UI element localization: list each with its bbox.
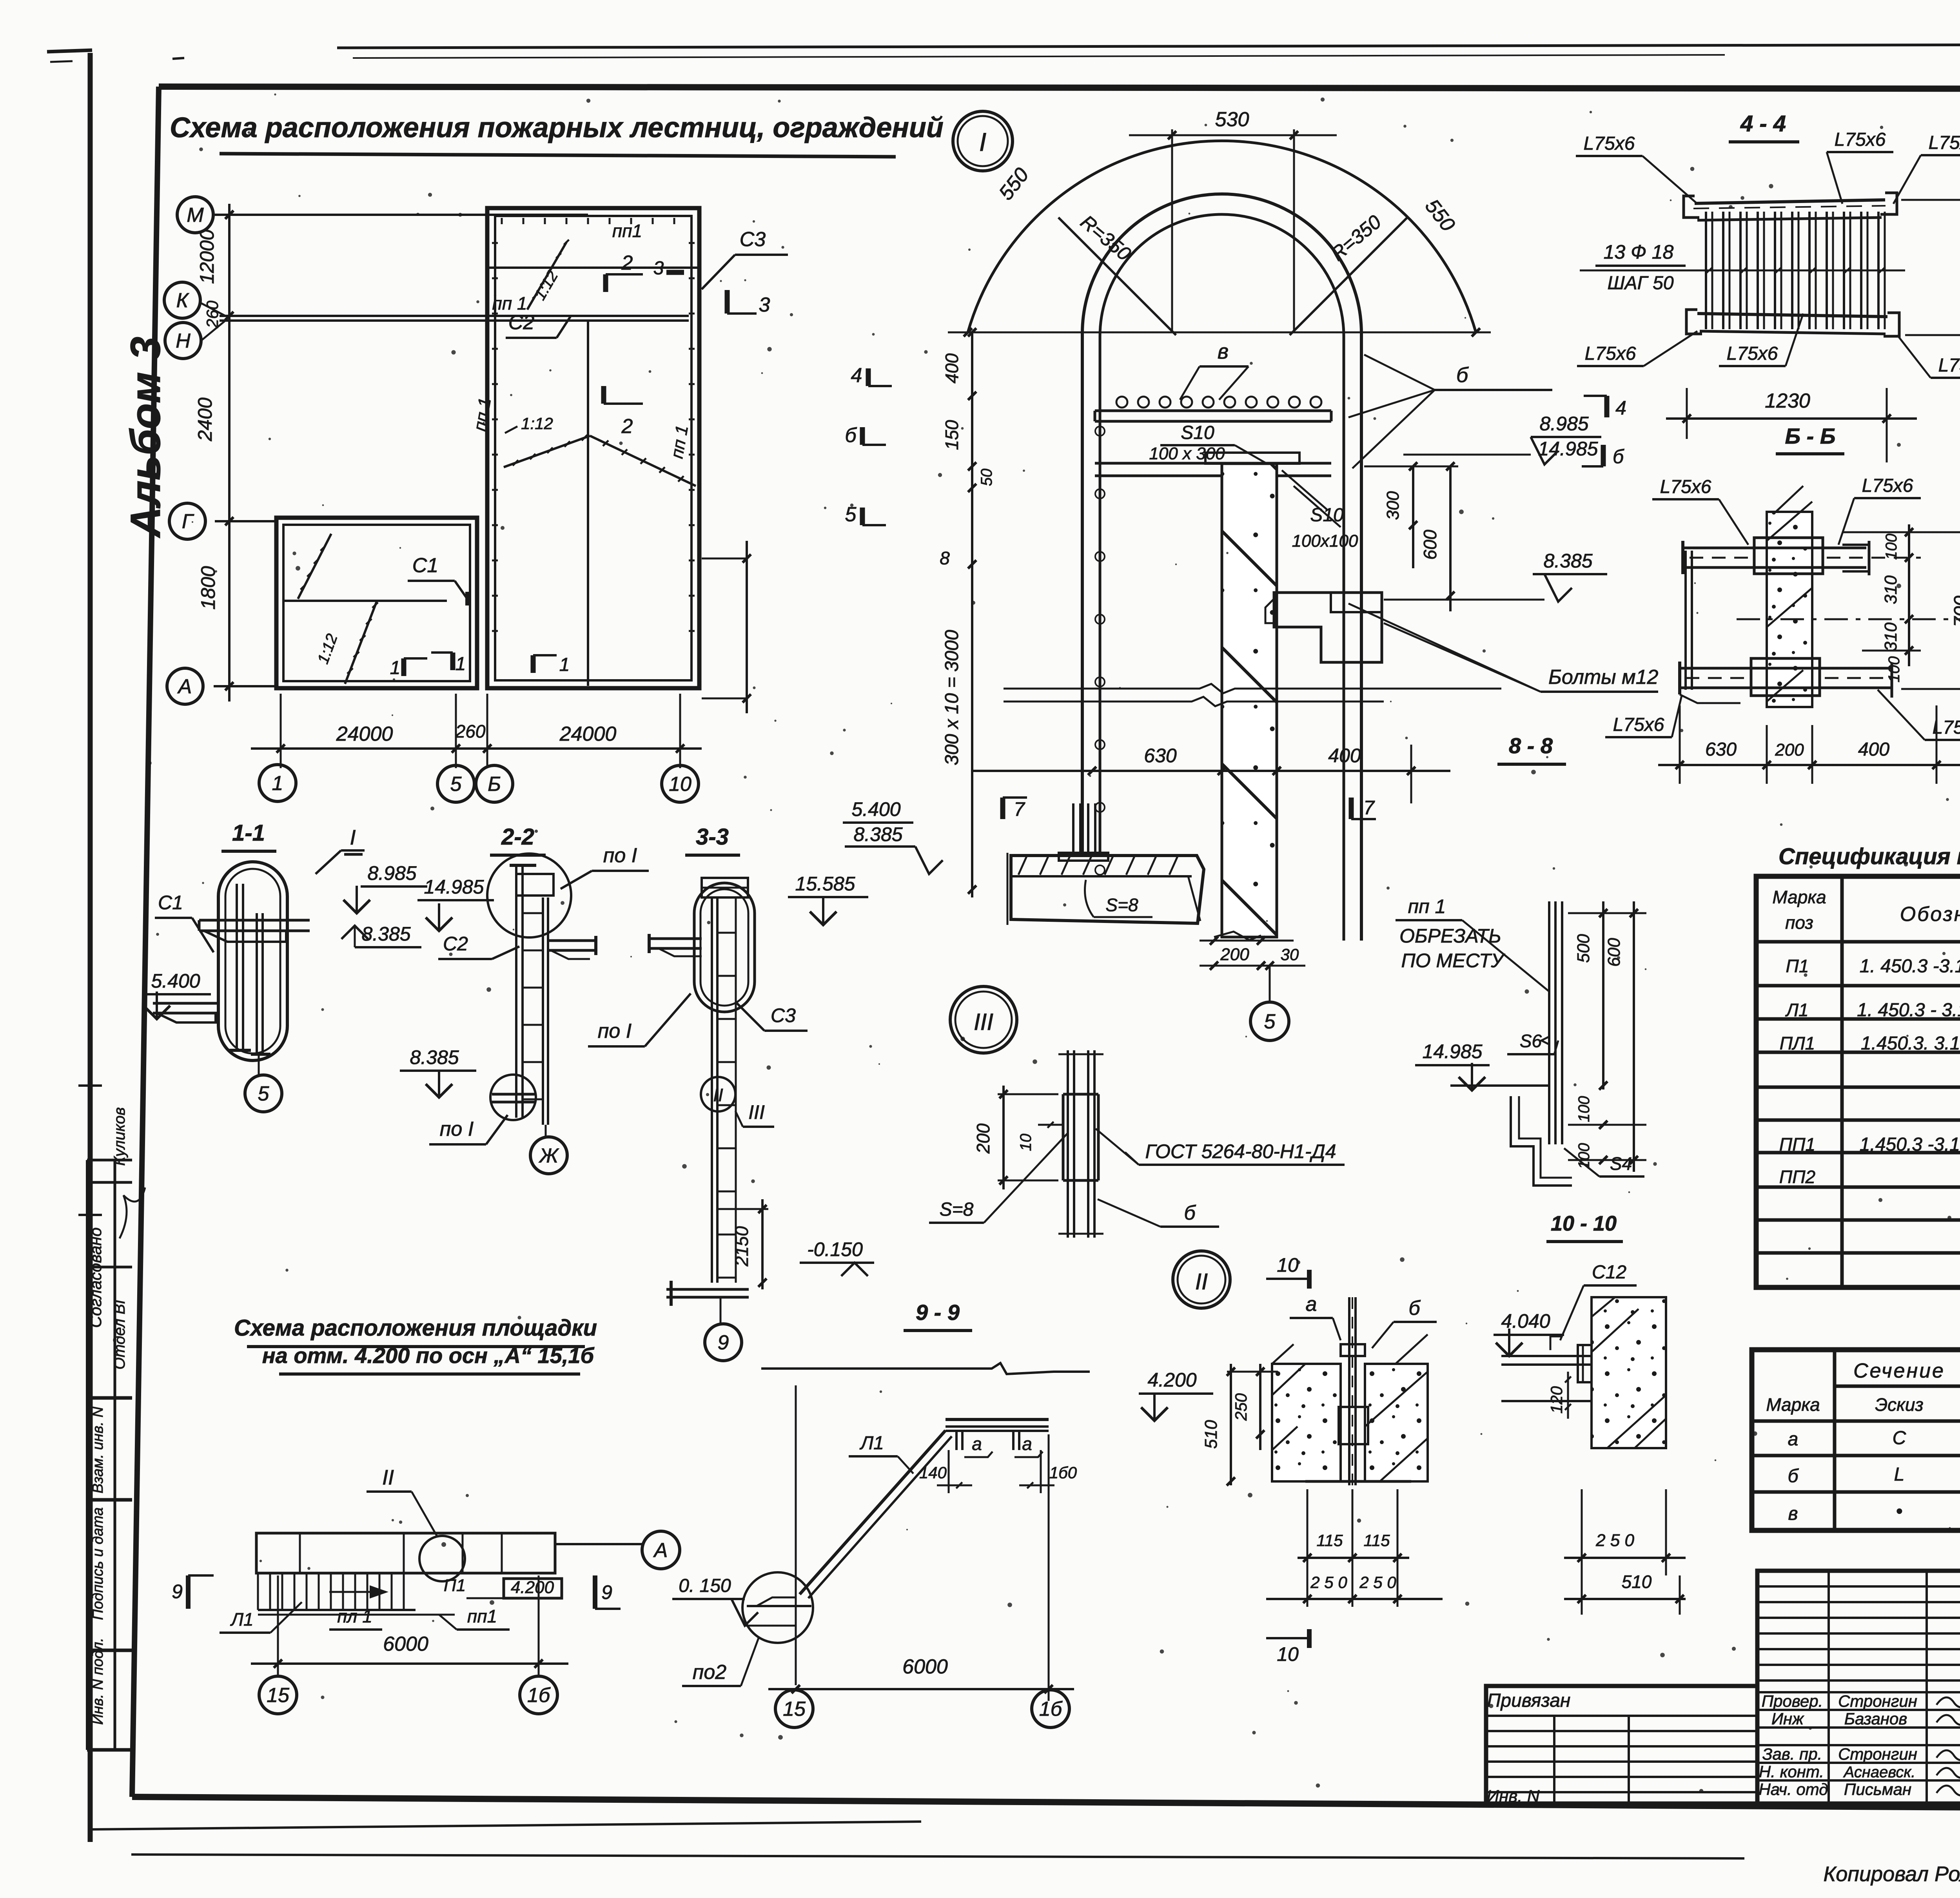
svg-text:Б: Б bbox=[488, 773, 501, 796]
svg-text:8.385: 8.385 bbox=[361, 923, 410, 945]
svg-text:3-3: 3-3 bbox=[696, 824, 729, 850]
axis K-N double line bbox=[200, 303, 689, 341]
svg-text:L75x6: L75x6 bbox=[1929, 132, 1960, 153]
svg-text:Отдел ВГ: Отдел ВГ bbox=[111, 1294, 128, 1369]
svg-text:А: А bbox=[177, 675, 192, 698]
svg-text:8.985: 8.985 bbox=[1539, 413, 1588, 435]
section mark 10 bottom bbox=[1266, 1629, 1309, 1665]
9-9 stringer diagonal bbox=[800, 1430, 952, 1598]
svg-text:пп 1: пп 1 bbox=[492, 293, 527, 314]
svg-text:Марка: Марка bbox=[1766, 1394, 1820, 1415]
svg-text:2 5 0: 2 5 0 bbox=[1359, 1573, 1396, 1592]
spec table header bbox=[1772, 887, 1960, 933]
B-B right dim chains bbox=[1842, 513, 1960, 702]
svg-text:3: 3 bbox=[653, 258, 664, 279]
column cap plate bbox=[1205, 453, 1299, 464]
B-B column hatched bbox=[1767, 486, 1812, 707]
svg-text:L: L bbox=[1894, 1464, 1905, 1485]
column bubble 1 bbox=[259, 765, 296, 801]
svg-text:•: • bbox=[1896, 1501, 1903, 1522]
svg-text:С1: С1 bbox=[158, 892, 183, 914]
label L75x6 bbox=[1576, 133, 1697, 204]
B-B bottom bar bbox=[1680, 658, 1892, 703]
svg-text:4.200: 4.200 bbox=[511, 1578, 554, 1597]
po2 circle 9-9 bbox=[742, 1572, 813, 1643]
floor slope 1:12 building A bbox=[504, 414, 696, 486]
svg-text:10: 10 bbox=[1277, 1254, 1299, 1276]
bubble 16 platform bbox=[520, 1676, 557, 1714]
svg-text:Базанов: Базанов bbox=[1844, 1709, 1907, 1728]
spec table rows bbox=[1779, 956, 1960, 1187]
pp1 vertical strip bbox=[1549, 901, 1562, 1144]
svg-text:Зав. пр.: Зав. пр. bbox=[1762, 1745, 1822, 1763]
P1 and 4.200 box bbox=[444, 1576, 562, 1598]
svg-text:Схема расположения площадки: Схема расположения площадки bbox=[234, 1315, 597, 1341]
dim 530 on arc top bbox=[1129, 108, 1337, 332]
svg-text:б: б bbox=[845, 424, 857, 447]
vedomost header bbox=[1766, 1360, 1960, 1422]
B-B bottom dims 630 200 400 bbox=[1658, 705, 1960, 784]
svg-text:L75x6: L75x6 bbox=[1862, 475, 1913, 496]
svg-text:5: 5 bbox=[258, 1082, 270, 1105]
svg-text:ОБРЕЗАТЬ: ОБРЕЗАТЬ bbox=[1399, 925, 1501, 947]
left margin stamp boxes bbox=[87, 1160, 132, 1750]
svg-text:Нач. отд: Нач. отд bbox=[1759, 1780, 1828, 1798]
main title bbox=[170, 112, 944, 157]
spec table title bbox=[1779, 844, 1960, 869]
0.150 elevation 9-9 bbox=[672, 1575, 796, 1626]
10-10 beam lines bbox=[1501, 1336, 1592, 1401]
S4 label bbox=[1564, 1148, 1644, 1177]
section mark 3 (outside right) bbox=[727, 290, 770, 316]
svg-text:1: 1 bbox=[390, 658, 401, 678]
svg-text:Аснаевск.: Аснаевск. bbox=[1843, 1764, 1916, 1781]
svg-text:24000: 24000 bbox=[336, 723, 393, 745]
detail circle II on band bbox=[419, 1536, 465, 1581]
B-B centerline bbox=[1737, 618, 1960, 620]
platform ladder grid below bbox=[258, 1573, 455, 1615]
column break and dims 200 30 bbox=[1200, 932, 1305, 970]
svg-text:300: 300 bbox=[1383, 491, 1403, 520]
svg-text:2400: 2400 bbox=[194, 397, 216, 441]
svg-text:1. 450.3 -3.1 2.1.1.0.0- 16: 1. 450.3 -3.1 2.1.1.0.0- 16 bbox=[1860, 956, 1960, 977]
GOST weld label bbox=[1096, 1129, 1345, 1165]
svg-text:б: б bbox=[1788, 1466, 1799, 1486]
platform hatched zones bbox=[267, 1533, 549, 1573]
dim 2150 3-3 bbox=[717, 1199, 768, 1289]
section 1-1 cage capsule bbox=[218, 862, 287, 1060]
section mark 3 (inside) bbox=[653, 258, 684, 279]
svg-text:2: 2 bbox=[621, 415, 633, 438]
section 3-3 bracket left bbox=[649, 934, 702, 956]
svg-text:S4: S4 bbox=[1610, 1153, 1632, 1174]
9-9 axis line bbox=[795, 1385, 797, 1685]
svg-text:115: 115 bbox=[1364, 1531, 1390, 1550]
svg-text:а: а bbox=[972, 1434, 982, 1454]
platform center arrow bbox=[329, 1586, 386, 1597]
svg-text:1: 1 bbox=[272, 772, 283, 795]
section title 3-3 bbox=[685, 824, 740, 855]
svg-text:М: М bbox=[187, 204, 204, 227]
svg-text:в: в bbox=[1218, 340, 1229, 363]
po2 label bbox=[682, 1638, 759, 1686]
elevation 8.985 1-1 bbox=[343, 862, 427, 913]
label L75x6 bbox=[1719, 314, 1803, 366]
section mark 2 (mid) bbox=[604, 386, 643, 438]
building B inner line bbox=[283, 600, 447, 602]
4-4 dashed top line bbox=[1693, 206, 1886, 208]
svg-text:Стронгин: Стронгин bbox=[1838, 1692, 1917, 1710]
svg-text:L75x6: L75x6 bbox=[1584, 133, 1635, 154]
bubble 15 9-9 bbox=[775, 1690, 813, 1728]
title 9-9 bbox=[904, 1300, 972, 1331]
section 1-1 ladder stringers bbox=[229, 884, 270, 1054]
svg-text:8.385: 8.385 bbox=[410, 1046, 459, 1068]
svg-text:Схема расположения пожарных: Схема расположения пожарных лестниц, огр… bbox=[170, 112, 944, 143]
break lines across shaft bbox=[1004, 684, 1501, 706]
svg-text:5: 5 bbox=[1264, 1010, 1276, 1033]
svg-text:1. 450.3 - 3.1 1.1.1:0.0- 19: 1. 450.3 - 3.1 1.1.1:0.0- 19 bbox=[1857, 1000, 1960, 1021]
svg-text:7: 7 bbox=[1363, 797, 1375, 819]
S6 label bbox=[1507, 1031, 1558, 1054]
slope line building B upper bbox=[298, 534, 331, 599]
svg-text:4.200: 4.200 bbox=[1147, 1369, 1196, 1391]
120 dim bbox=[1547, 1372, 1571, 1419]
svg-text:С2: С2 bbox=[508, 311, 535, 334]
svg-text:9: 9 bbox=[718, 1331, 729, 1354]
svg-text:по I: по I bbox=[440, 1118, 474, 1140]
4-4 bottom rail bbox=[1686, 310, 1899, 336]
svg-text:30: 30 bbox=[1281, 945, 1299, 964]
signature rows text bbox=[1759, 1692, 1960, 1798]
bubble 9 under 3-3 bbox=[705, 1297, 742, 1361]
weld dims 200 10 bbox=[973, 1086, 1063, 1189]
axis M line bbox=[215, 210, 588, 219]
node base plate bbox=[1305, 1407, 1411, 1481]
axis N bubble bbox=[165, 323, 201, 359]
svg-text:100: 100 bbox=[1575, 1096, 1593, 1122]
svg-text:С1: С1 bbox=[412, 554, 438, 577]
svg-text:1б0: 1б0 bbox=[1049, 1463, 1077, 1482]
svg-text:50: 50 bbox=[978, 469, 995, 486]
svg-text:300 x 10 = 3000: 300 x 10 = 3000 bbox=[942, 630, 962, 765]
dims 500 600 right bbox=[1568, 901, 1646, 1172]
svg-text:310: 310 bbox=[1881, 622, 1900, 651]
1230 dim 4-4 bbox=[1666, 388, 1917, 462]
svg-text:I: I bbox=[350, 826, 356, 849]
svg-text:ПП2: ПП2 bbox=[1779, 1167, 1815, 1187]
svg-text:ПЛ1: ПЛ1 bbox=[1780, 1033, 1815, 1053]
section 2-2 top landing plate bbox=[516, 874, 554, 896]
label C2 leader 2-2 bbox=[438, 933, 519, 959]
elevation 8.385 2-2 bbox=[400, 1046, 476, 1097]
svg-text:III: III bbox=[974, 1009, 993, 1035]
detail I base slab bbox=[1007, 853, 1204, 925]
horizontal axis line of hoop top bbox=[948, 332, 1491, 334]
svg-text:Провер.: Провер. bbox=[1762, 1692, 1823, 1710]
label L75x6 bbox=[1897, 335, 1960, 378]
svg-text:L75x6: L75x6 bbox=[1660, 477, 1711, 497]
svg-text:а: а bbox=[1788, 1429, 1798, 1450]
platform 6000 dim bbox=[251, 1575, 568, 1675]
bottom dimension line of plan bbox=[251, 694, 702, 768]
svg-text:в: в bbox=[1788, 1503, 1798, 1524]
second plate with S10 100x300 bbox=[1095, 422, 1331, 476]
9-9 top line with jog bbox=[761, 1363, 1090, 1374]
title block privyazan part bbox=[1486, 1686, 1757, 1806]
svg-text:а: а bbox=[1022, 1434, 1032, 1454]
svg-text:5: 5 bbox=[845, 503, 857, 526]
svg-text:Б - Б: Б - Б bbox=[1785, 424, 1835, 448]
roof slope 1:12 top band bbox=[527, 240, 569, 310]
sheet outer scan edge bottom bbox=[91, 1822, 1744, 1858]
svg-text:2 5 0: 2 5 0 bbox=[1595, 1531, 1634, 1550]
bolts m12 label bbox=[1348, 604, 1659, 692]
svg-text:630: 630 bbox=[1144, 745, 1177, 767]
svg-text:S10: S10 bbox=[1181, 422, 1214, 443]
R=350 leaders bbox=[1058, 211, 1407, 335]
svg-text:П1: П1 bbox=[1786, 956, 1809, 976]
bubble 16 9-9 bbox=[1032, 1690, 1069, 1728]
section 1-1 platform bracket bbox=[199, 920, 310, 942]
svg-text:S6: S6 bbox=[1520, 1031, 1542, 1051]
svg-text:2-2: 2-2 bbox=[501, 824, 534, 850]
svg-text:ПО МЕСТУ: ПО МЕСТУ bbox=[1401, 950, 1506, 972]
svg-text:поз: поз bbox=[1785, 912, 1813, 933]
svg-text:С: С bbox=[1893, 1428, 1906, 1448]
title B-B bbox=[1776, 424, 1844, 454]
svg-text:150: 150 bbox=[942, 420, 962, 450]
section 3-3 top plate bbox=[702, 878, 748, 897]
elevation 15.585 3-3 bbox=[788, 873, 868, 925]
C12 label bbox=[1560, 1262, 1637, 1340]
kopiroval bbox=[1823, 1862, 1960, 1886]
svg-text:115: 115 bbox=[1317, 1531, 1343, 1550]
svg-text:1-1: 1-1 bbox=[232, 820, 265, 846]
svg-text:14.985: 14.985 bbox=[1423, 1041, 1483, 1062]
svg-text:600: 600 bbox=[1420, 529, 1440, 560]
svg-text:5: 5 bbox=[450, 773, 462, 796]
svg-text:Обозначение: Обозначение bbox=[1900, 903, 1960, 926]
B-B L75x6 labels bbox=[1652, 477, 1748, 545]
svg-text:б: б bbox=[1456, 363, 1469, 387]
svg-text:Сечение: Сечение bbox=[1853, 1360, 1945, 1382]
svg-text:100: 100 bbox=[1883, 534, 1900, 560]
elevation 8.385 right bbox=[1384, 550, 1607, 602]
svg-text:L75x6: L75x6 bbox=[1727, 343, 1778, 364]
section marks 4 6 below bbox=[1582, 396, 1626, 468]
svg-text:200: 200 bbox=[973, 1123, 993, 1154]
node a b labels bbox=[1290, 1293, 1437, 1348]
node concrete right bbox=[1365, 1334, 1428, 1481]
svg-text:13 Ф 18: 13 Ф 18 bbox=[1604, 241, 1674, 263]
svg-text:Стронгин: Стронгин bbox=[1838, 1745, 1917, 1763]
svg-text:Марка: Марка bbox=[1772, 887, 1826, 907]
sheet outer scan edge top bbox=[337, 44, 1960, 58]
svg-text:15: 15 bbox=[783, 1698, 806, 1720]
svg-text:А: А bbox=[653, 1539, 668, 1562]
node elevation 4.200 bbox=[1139, 1369, 1213, 1421]
label po I bottom 2-2 bbox=[429, 1115, 508, 1144]
label po I top 2-2 bbox=[561, 844, 649, 889]
svg-text:9: 9 bbox=[601, 1581, 612, 1603]
svg-text:S=8: S=8 bbox=[1105, 895, 1138, 915]
section mark 1 pair building A bbox=[533, 654, 570, 675]
svg-text:400: 400 bbox=[1328, 745, 1361, 767]
svg-text:1230: 1230 bbox=[1765, 390, 1810, 412]
svg-text:1.450.3. 3.1 4.1.1.10. - 11: 1.450.3. 3.1 4.1.1.10. - 11 bbox=[1861, 1033, 1960, 1054]
svg-text:260: 260 bbox=[455, 721, 486, 741]
svg-text:9: 9 bbox=[172, 1581, 183, 1603]
svg-text:II: II bbox=[713, 1085, 723, 1105]
svg-text:4: 4 bbox=[1615, 397, 1626, 419]
svg-text:Л1: Л1 bbox=[1785, 1000, 1808, 1020]
svg-text:0. 150: 0. 150 bbox=[679, 1575, 731, 1596]
svg-text:L75x6: L75x6 bbox=[1835, 129, 1886, 150]
svg-text:510: 510 bbox=[1622, 1572, 1652, 1592]
svg-text:б: б bbox=[1184, 1202, 1196, 1224]
B-B left vertical tie bbox=[1686, 551, 1692, 690]
svg-text:15.585: 15.585 bbox=[795, 873, 855, 895]
registration tick marks left edge bbox=[78, 1086, 102, 1750]
pp1 labels building A bbox=[470, 221, 692, 460]
svg-text:ГОСТ 5264-80-Н1-Д4: ГОСТ 5264-80-Н1-Д4 bbox=[1145, 1140, 1336, 1162]
svg-text:120: 120 bbox=[1547, 1386, 1566, 1414]
4.040 elevation bbox=[1494, 1310, 1564, 1356]
spec table grid bbox=[1756, 876, 1960, 1287]
svg-text:700: 700 bbox=[1951, 596, 1960, 627]
svg-text:Письман: Письман bbox=[1844, 1780, 1911, 1798]
building A inner lines bbox=[487, 268, 699, 686]
bubble 15 platform bbox=[259, 1676, 297, 1714]
svg-text:пп1: пп1 bbox=[612, 221, 642, 241]
svg-text:б: б bbox=[1408, 1297, 1421, 1320]
svg-text:5.400: 5.400 bbox=[151, 970, 200, 992]
label II leader bbox=[367, 1466, 437, 1536]
label III leader 3-3 bbox=[735, 1101, 774, 1127]
right wall bracket step bbox=[1265, 593, 1382, 662]
node dims 250 250 bbox=[1266, 1573, 1443, 1603]
scan artifact dashes top-left bbox=[47, 50, 184, 62]
concrete column (hatched) bbox=[1222, 464, 1277, 937]
label L75x6 bbox=[1893, 132, 1960, 204]
10-10 wall concrete bbox=[1592, 1297, 1666, 1448]
svg-text:Спецификация к схеме распол: Спецификация к схеме расположения площад… bbox=[1779, 844, 1960, 869]
svg-text:1:12: 1:12 bbox=[521, 414, 553, 433]
svg-text:10 - 10: 10 - 10 bbox=[1551, 1212, 1617, 1235]
svg-text:4 - 4: 4 - 4 bbox=[1740, 111, 1786, 136]
svg-text:200: 200 bbox=[1220, 945, 1249, 964]
svg-text:Согласовано: Согласовано bbox=[86, 1227, 105, 1328]
sheet outer scan edge left bbox=[88, 53, 93, 1842]
svg-text:2150: 2150 bbox=[731, 1226, 752, 1267]
svg-text:Л1: Л1 bbox=[230, 1609, 253, 1630]
svg-text:S=8: S=8 bbox=[940, 1199, 974, 1220]
axis A bubble bbox=[167, 668, 203, 704]
svg-text:7: 7 bbox=[1014, 798, 1025, 820]
axis G bubble bbox=[169, 503, 205, 539]
svg-text:630: 630 bbox=[1705, 739, 1737, 760]
svg-text:15: 15 bbox=[267, 1684, 290, 1707]
svg-text:С3: С3 bbox=[740, 228, 766, 251]
svg-text:9 - 9: 9 - 9 bbox=[916, 1300, 960, 1325]
svg-text:-0.150: -0.150 bbox=[807, 1238, 863, 1260]
bubble 5 under column bbox=[1250, 966, 1289, 1041]
svg-text:ШАГ 50: ШАГ 50 bbox=[1607, 273, 1673, 294]
label C1 leader 1-1 bbox=[155, 892, 214, 952]
elevation 14.985 bbox=[1415, 1041, 1490, 1090]
labels pl1 pp1 L1 bbox=[220, 1602, 510, 1633]
svg-text:1б: 1б bbox=[1039, 1698, 1063, 1720]
svg-text:Подпись и дата: Подпись и дата bbox=[90, 1507, 106, 1620]
svg-text:530: 530 bbox=[1215, 108, 1249, 131]
svg-text:С12: С12 bbox=[1592, 1262, 1626, 1283]
left margin rotated captions bbox=[86, 1107, 145, 1725]
title block signature grid bbox=[1757, 1571, 1960, 1804]
section mark 2 (top) bbox=[606, 252, 643, 292]
svg-text:С2: С2 bbox=[443, 933, 468, 955]
small circle bracket 2-2 bbox=[490, 1075, 536, 1120]
svg-text:Инж: Инж bbox=[1771, 1709, 1804, 1728]
svg-text:пп1: пп1 bbox=[467, 1606, 497, 1626]
9-9 post a marks bbox=[964, 1434, 1043, 1457]
svg-text:L75x6: L75x6 bbox=[1613, 714, 1664, 735]
svg-text:12000: 12000 bbox=[196, 229, 218, 284]
section title 1-1 bbox=[221, 820, 276, 851]
svg-text:L75x6: L75x6 bbox=[1585, 343, 1636, 364]
svg-text:по I: по I bbox=[598, 1020, 632, 1042]
svg-text:Копировал Роллевская: Копировал Роллевская bbox=[1823, 1862, 1960, 1886]
svg-text:по I: по I bbox=[603, 844, 637, 867]
dims 140 160 9-9 bbox=[919, 1450, 1077, 1493]
axis A line bbox=[214, 685, 278, 687]
platform scheme title bbox=[234, 1315, 597, 1374]
svg-text:100x100: 100x100 bbox=[1292, 531, 1358, 551]
svg-text:Н. конт.: Н. конт. bbox=[1759, 1762, 1824, 1781]
9-9 platform bbox=[946, 1419, 1049, 1450]
svg-text:Н: Н bbox=[176, 330, 191, 352]
elevation 14.985 2-2 bbox=[417, 876, 494, 931]
elevations 5.400 8.385 left bottom bbox=[843, 798, 943, 874]
svg-text:Привязан: Привязан bbox=[1487, 1690, 1571, 1711]
section marks 4 6 5 left bbox=[845, 364, 892, 526]
node concrete left bbox=[1272, 1344, 1341, 1481]
svg-text:14.985: 14.985 bbox=[424, 876, 484, 898]
svg-text:1: 1 bbox=[559, 654, 570, 675]
section 1-1 lower bracket bbox=[153, 1003, 220, 1022]
S10 100x100 labels bbox=[1282, 470, 1358, 551]
svg-text:6000: 6000 bbox=[902, 1655, 948, 1678]
4-4 rung axis line bbox=[1580, 267, 1905, 274]
section title 2-2 bbox=[490, 824, 546, 855]
pp1 obrezat po mestu text bbox=[1396, 896, 1549, 992]
svg-text:400: 400 bbox=[1858, 739, 1889, 760]
b label weld bbox=[1098, 1199, 1219, 1227]
svg-text:200: 200 bbox=[1775, 740, 1804, 760]
hatch ticks along building A top bbox=[502, 218, 674, 224]
right dim chain 300 600 bbox=[1364, 462, 1458, 611]
4-4 top rail bbox=[1684, 193, 1897, 220]
svg-text:1: 1 bbox=[456, 654, 466, 674]
vedomost rows bbox=[1788, 1428, 1960, 1525]
axis G line bbox=[215, 520, 278, 522]
section 2-2 ladder bbox=[510, 865, 548, 1125]
section marks 9 left right bbox=[172, 1575, 621, 1609]
svg-text:Куликов: Куликов bbox=[111, 1107, 128, 1166]
svg-text:Ж: Ж bbox=[538, 1144, 559, 1167]
svg-text:а: а bbox=[1306, 1293, 1317, 1316]
section 3-3 ladder bbox=[712, 897, 736, 1283]
